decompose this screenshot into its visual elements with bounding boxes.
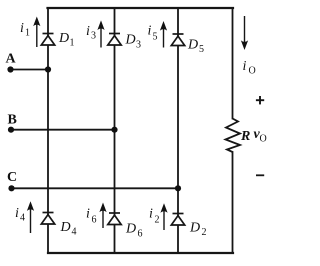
svg-text:D: D bbox=[189, 221, 200, 236]
diode D2 bbox=[171, 214, 184, 226]
svg-text:2: 2 bbox=[202, 227, 207, 238]
svg-text:1: 1 bbox=[70, 38, 75, 49]
svg-text:i: i bbox=[149, 207, 153, 222]
wire bottom bus bbox=[48, 252, 233, 254]
svg-text:3: 3 bbox=[91, 31, 96, 42]
arrow iO output current bbox=[241, 16, 248, 50]
svg-text:i: i bbox=[243, 59, 247, 74]
svg-text:R: R bbox=[240, 129, 250, 144]
node C junction bbox=[175, 185, 181, 191]
wire top bus bbox=[48, 7, 234, 9]
svg-text:1: 1 bbox=[25, 28, 30, 39]
arrow i1 bbox=[33, 17, 40, 48]
arrow i3 bbox=[97, 20, 104, 47]
node A terminal bbox=[7, 66, 13, 72]
diode D6 bbox=[108, 213, 121, 225]
svg-text:6: 6 bbox=[92, 215, 97, 226]
arrow i5 bbox=[160, 21, 167, 48]
svg-text:D: D bbox=[58, 31, 69, 46]
node C terminal bbox=[8, 185, 14, 191]
wire phase A bbox=[11, 69, 49, 71]
svg-text:i: i bbox=[148, 24, 152, 39]
wire D1/D4 branch vertical bbox=[47, 8, 49, 253]
diode D3 bbox=[108, 34, 121, 46]
svg-text:2: 2 bbox=[155, 215, 160, 226]
svg-text:i: i bbox=[20, 21, 24, 36]
arrow i2 bbox=[160, 203, 167, 230]
wire phase C bbox=[12, 187, 179, 189]
diode D1 bbox=[41, 34, 54, 46]
svg-text:D: D bbox=[125, 33, 136, 48]
diode D5 bbox=[171, 34, 184, 46]
arrow i6 bbox=[99, 203, 106, 229]
svg-text:D: D bbox=[125, 222, 136, 237]
svg-text:i: i bbox=[15, 206, 19, 221]
svg-text:D: D bbox=[187, 38, 198, 53]
svg-text:D: D bbox=[60, 220, 71, 235]
svg-text:6: 6 bbox=[138, 229, 143, 240]
svg-text:O: O bbox=[260, 134, 267, 145]
label plus bbox=[256, 96, 264, 104]
svg-text:A: A bbox=[6, 52, 17, 67]
svg-text:B: B bbox=[8, 113, 17, 128]
svg-text:i: i bbox=[86, 24, 90, 39]
node B junction bbox=[111, 127, 117, 133]
wire D3/D6 branch vertical bbox=[114, 8, 116, 253]
label minus bbox=[256, 174, 264, 176]
svg-text:3: 3 bbox=[136, 40, 141, 51]
wire phase B bbox=[11, 129, 115, 131]
svg-text:C: C bbox=[7, 170, 17, 185]
svg-text:4: 4 bbox=[20, 213, 25, 224]
diode D4 bbox=[41, 213, 54, 225]
resistor R zigzag bbox=[226, 119, 241, 153]
node B terminal bbox=[8, 127, 14, 133]
svg-text:i: i bbox=[86, 207, 90, 222]
svg-text:5: 5 bbox=[153, 32, 158, 43]
wire load branch vertical upper bbox=[232, 8, 234, 119]
wire load branch vertical lower bbox=[232, 152, 234, 253]
svg-text:O: O bbox=[249, 66, 256, 77]
svg-text:5: 5 bbox=[199, 44, 204, 55]
arrow i4 bbox=[27, 201, 34, 233]
wire D5/D2 branch vertical bbox=[177, 8, 179, 253]
node A junction bbox=[45, 66, 51, 72]
svg-text:4: 4 bbox=[72, 227, 77, 238]
